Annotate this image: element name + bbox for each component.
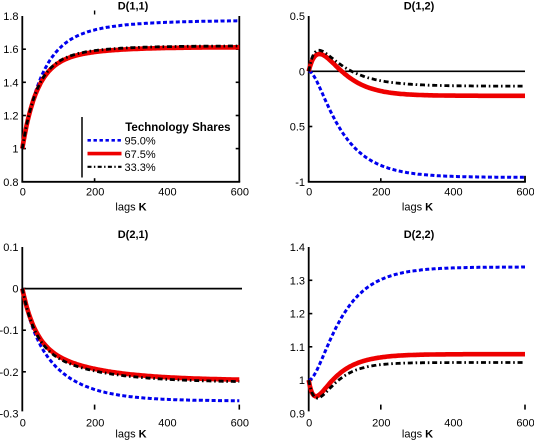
subplot D(1,1) axes	[21, 11, 240, 182]
svg-text:1.3: 1.3	[290, 275, 305, 287]
svg-text:0.1: 0.1	[3, 242, 18, 254]
svg-text:1.2: 1.2	[3, 110, 18, 122]
svg-text:D(2,2): D(2,2)	[404, 229, 435, 241]
svg-text:0: 0	[20, 418, 26, 430]
svg-text:1.2: 1.2	[290, 309, 305, 321]
svg-text:400: 400	[158, 418, 176, 430]
svg-text:600: 600	[516, 418, 534, 430]
svg-text:D(1,2): D(1,2)	[404, 1, 435, 13]
svg-text:lags K: lags K	[402, 429, 433, 441]
D(2,2) tick labels	[290, 242, 534, 430]
D(1,2) curve 95.0% blue dashed	[309, 71, 525, 177]
svg-text:D(2,1): D(2,1)	[118, 229, 149, 241]
D(1,1) tick labels	[3, 11, 249, 199]
svg-text:0: 0	[12, 284, 18, 296]
svg-text:0.5: 0.5	[290, 122, 305, 134]
svg-text:0: 0	[306, 187, 312, 199]
svg-text:0.9: 0.9	[290, 408, 305, 420]
svg-text:1.4: 1.4	[290, 242, 305, 254]
svg-text:1.8: 1.8	[3, 11, 18, 23]
D(2,1) curve 67.5% red solid	[22, 289, 239, 380]
svg-text:-1: -1	[295, 177, 305, 189]
svg-text:0: 0	[299, 66, 305, 78]
D(1,2) zero line	[309, 70, 525, 72]
svg-text:600: 600	[231, 418, 249, 430]
svg-text:600: 600	[231, 187, 249, 199]
subplot D(2,1) axes	[22, 247, 239, 411]
D(1,2) curve 67.5% red solid	[309, 54, 525, 96]
svg-text:400: 400	[444, 418, 462, 430]
svg-text:200: 200	[372, 418, 390, 430]
svg-text:0.8: 0.8	[3, 177, 18, 189]
D(1,2) curve 33.3% black dash-dot	[309, 50, 525, 86]
svg-text:1.4: 1.4	[3, 77, 18, 89]
svg-text:-0.2: -0.2	[0, 367, 19, 379]
D(1,2) tick labels	[290, 11, 534, 199]
svg-text:0.5: 0.5	[290, 11, 305, 23]
svg-text:1.6: 1.6	[3, 44, 18, 56]
svg-text:-0.1: -0.1	[0, 325, 19, 337]
svg-text:400: 400	[158, 187, 176, 199]
D(2,2) curve 95.0% blue dashed	[309, 267, 525, 380]
svg-text:Technology Shares: Technology Shares	[125, 122, 230, 134]
legend entry 95.0% blue dashed	[88, 139, 122, 142]
D(2,1) tick labels	[0, 242, 249, 430]
svg-text:-0.3: -0.3	[0, 408, 19, 420]
legend entry 33.3% black dash-dot	[88, 166, 122, 168]
svg-text:lags K: lags K	[115, 202, 146, 214]
svg-text:200: 200	[86, 418, 104, 430]
D(2,1) curve 95.0% blue dashed	[22, 289, 239, 401]
svg-text:1.1: 1.1	[290, 342, 305, 354]
D(1,1) curve 67.5% red solid	[22, 47, 239, 148]
svg-text:33.3%: 33.3%	[125, 162, 156, 174]
legend entry 67.5% red solid	[88, 152, 122, 156]
svg-text:400: 400	[444, 187, 462, 199]
svg-text:200: 200	[86, 187, 104, 199]
svg-text:lags K: lags K	[402, 202, 433, 214]
svg-text:67.5%: 67.5%	[125, 149, 156, 161]
svg-text:1: 1	[12, 144, 18, 156]
svg-text:1: 1	[299, 375, 305, 387]
svg-text:0: 0	[20, 187, 26, 199]
svg-text:lags K: lags K	[115, 429, 146, 441]
subplot D(2,2) axes	[309, 247, 525, 411]
D(1,1) curve 95.0% blue dashed	[22, 21, 239, 149]
D(2,1) zero line	[22, 288, 242, 290]
svg-text:95.0%: 95.0%	[125, 136, 156, 148]
D(2,2) curve 33.3% black dash-dot	[309, 363, 525, 399]
svg-text:200: 200	[372, 187, 390, 199]
D(1,1) curve 33.3% black dash-dot	[22, 46, 239, 149]
svg-text:D(1,1): D(1,1)	[118, 1, 149, 13]
legend left border	[81, 117, 83, 178]
svg-text:0: 0	[306, 418, 312, 430]
D(2,2) curve 67.5% red solid	[309, 354, 525, 396]
svg-text:600: 600	[516, 187, 534, 199]
D(2,1) curve 33.3% black dash-dot	[22, 289, 239, 382]
subplot D(1,2) axes	[308, 16, 526, 182]
